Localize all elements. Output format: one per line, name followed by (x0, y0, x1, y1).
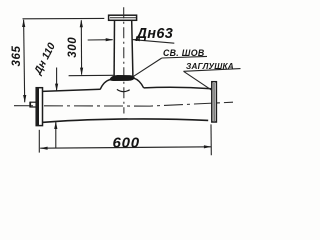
label Заглушка underline (184, 69, 241, 72)
saddle arc below branch (117, 89, 130, 91)
svg-text:365: 365 (11, 46, 23, 67)
right weld fillet curve (134, 78, 144, 88)
dim 365 upper arrowhead (22, 19, 25, 27)
end cap (заглушка) right (212, 82, 217, 122)
dim 300 lower arrowhead (80, 68, 83, 76)
label Св. шов leader (133, 58, 161, 76)
main pipe centerline (14, 102, 233, 106)
dim Дн110 lower arrowhead (54, 121, 57, 129)
end cap inner line (213, 83, 215, 121)
svg-text:600: 600 (113, 135, 140, 152)
label Заглушка leader (184, 71, 212, 90)
left weld fillet curve (100, 80, 110, 90)
dim Дн110 lower arrow line (55, 122, 57, 148)
branch pipe centerline (123, 7, 125, 113)
dim 600 left arrowhead (40, 147, 48, 150)
dim 600 right arrowhead (204, 145, 212, 148)
label Св. шов underline (162, 56, 207, 58)
main pipe top edge, right segment (144, 87, 212, 89)
dim Дн63 left arrowhead (106, 38, 114, 41)
dim Дн110 upper arrowhead (55, 84, 58, 92)
branch pipe left wall (113, 21, 115, 76)
svg-text:Дн63: Дн63 (135, 26, 174, 42)
main pipe top edge, left segment (42, 89, 100, 91)
flange left face shading (37, 88, 39, 125)
weld bead (св. шов) at branch root (110, 75, 135, 80)
dim Дн110 upper arrow line (56, 68, 58, 91)
paper background (0, 0, 246, 174)
dim Дн63 left arrow line (88, 39, 113, 41)
main pipe bottom edge (40, 119, 208, 123)
dim Дн63 right arrowhead (132, 38, 140, 41)
dim Дн63 right leader line (132, 40, 174, 44)
dim 365 line (24, 20, 25, 103)
branch pipe flange (top) (109, 15, 137, 20)
branch pipe right wall (132, 21, 133, 76)
dim 300 bottom extension line (69, 74, 114, 76)
svg-text:300: 300 (67, 37, 79, 58)
dim 600 line (40, 147, 211, 148)
dim 300 line (80, 20, 82, 74)
dim 600 left extension line (38, 130, 40, 153)
main pipe flange (left) (36, 88, 42, 126)
dim 600 right extension line (210, 124, 212, 155)
dim 365 top extension line (23, 17, 105, 19)
dim 300 upper arrowhead (80, 20, 83, 28)
stub nozzle on flange (30, 102, 36, 108)
dim 365 lower arrowhead (23, 95, 26, 103)
